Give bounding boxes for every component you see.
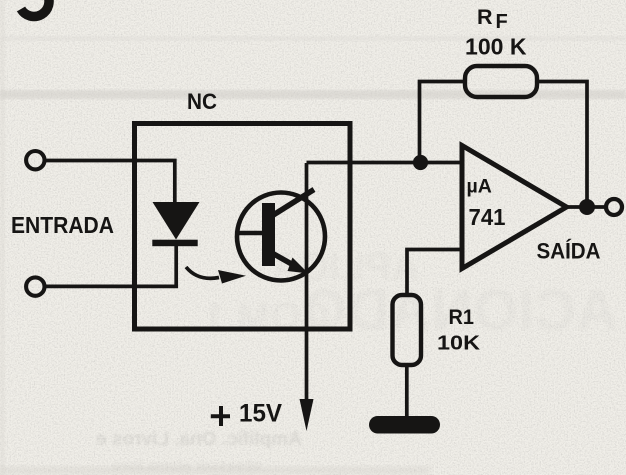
optocoupler box NC bbox=[135, 124, 351, 330]
svg-text:ENTRADA: ENTRADA bbox=[11, 212, 114, 238]
wire: collector/emitter vertical through transistor to +15V bbox=[305, 163, 309, 401]
svg-text:F: F bbox=[496, 11, 508, 33]
wire: collector to op-amp inverting input bbox=[307, 161, 463, 165]
svg-text:741: 741 bbox=[469, 204, 506, 230]
svg-text:Amplific. Ona. Livros e: Amplific. Ona. Livros e bbox=[96, 429, 302, 450]
svg-text:100 K: 100 K bbox=[465, 34, 527, 60]
label SAIDA bbox=[537, 239, 601, 264]
label NC bbox=[187, 89, 217, 114]
label +15V bbox=[211, 400, 283, 428]
LED of optocoupler bbox=[152, 202, 199, 246]
wire: R1 to ground bbox=[405, 365, 409, 418]
resistor R1 bbox=[393, 295, 422, 365]
svg-text:µA: µA bbox=[467, 176, 492, 198]
phototransistor Q1 bbox=[237, 190, 325, 281]
light coupling arrow bbox=[186, 267, 246, 284]
wire: bottom input to LED cathode bbox=[45, 246, 177, 286]
svg-text:obsessor aloma livro: obsessor aloma livro bbox=[112, 457, 262, 474]
node: inverting input junction bbox=[413, 155, 428, 170]
wire: feedback left riser bbox=[420, 82, 467, 163]
label µA 741 bbox=[467, 176, 506, 231]
ground bbox=[369, 416, 440, 434]
svg-text:SAÍDA: SAÍDA bbox=[537, 239, 601, 264]
wire: op-amp output bbox=[566, 205, 605, 209]
input terminal top bbox=[26, 151, 44, 169]
svg-text:10K: 10K bbox=[437, 333, 481, 355]
wire: non-inverting input to R1 bbox=[407, 250, 462, 296]
node: output junction bbox=[579, 199, 595, 215]
svg-text:R1: R1 bbox=[449, 306, 475, 329]
label RF bbox=[477, 5, 508, 33]
label R1 bbox=[449, 306, 475, 329]
op-amp U1 bbox=[462, 146, 567, 269]
resistor RF bbox=[465, 66, 537, 97]
svg-text:NC: NC bbox=[187, 89, 217, 114]
svg-text:COM 1: COM 1 bbox=[203, 295, 330, 339]
figure number fragment "5" bbox=[21, 0, 49, 17]
label ENTRADA bbox=[11, 212, 114, 238]
output terminal bbox=[606, 199, 622, 215]
wire: feedback right drop to output bbox=[536, 82, 587, 201]
input terminal bottom bbox=[26, 277, 44, 295]
wire: top input to LED anode bbox=[45, 161, 175, 203]
svg-text:15V: 15V bbox=[239, 400, 282, 428]
label 100 K bbox=[465, 34, 527, 60]
svg-text:R: R bbox=[477, 5, 493, 29]
+15V supply arrowhead bbox=[300, 399, 314, 431]
label 10K bbox=[437, 333, 481, 355]
